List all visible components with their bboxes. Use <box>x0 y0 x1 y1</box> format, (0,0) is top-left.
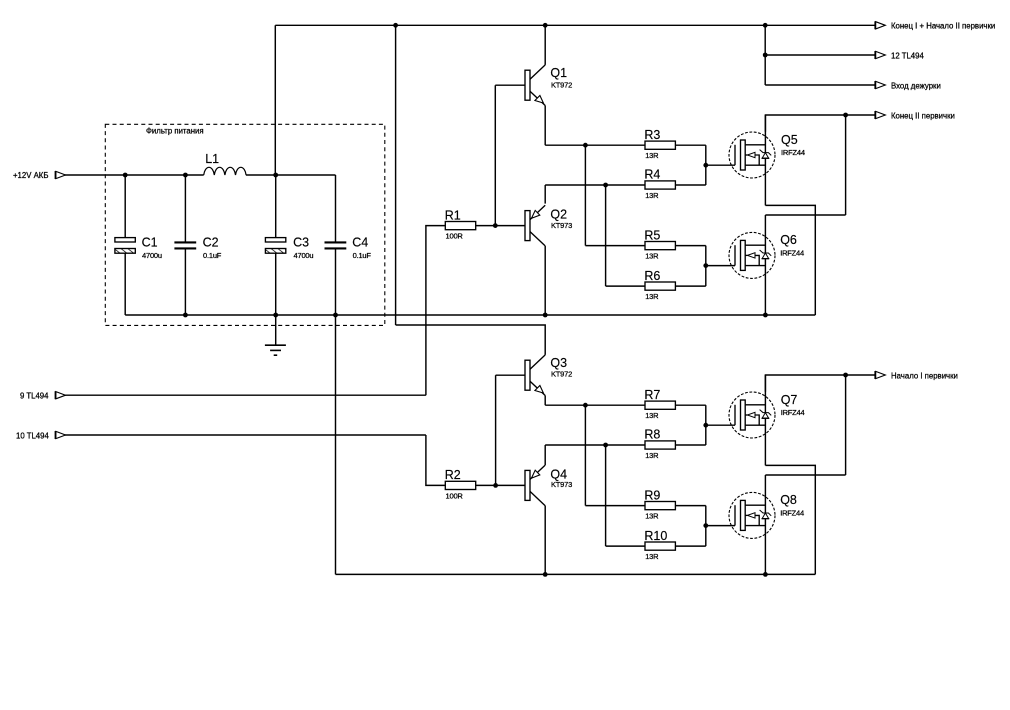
svg-text:Q2: Q2 <box>550 208 567 222</box>
svg-text:10 TL494: 10 TL494 <box>16 431 49 440</box>
svg-text:IRFZ44: IRFZ44 <box>780 249 804 258</box>
svg-text:IRFZ44: IRFZ44 <box>781 148 805 157</box>
svg-text:13R: 13R <box>645 252 659 261</box>
svg-text:Q1: Q1 <box>550 66 567 80</box>
svg-text:13R: 13R <box>645 151 659 160</box>
svg-text:KT973: KT973 <box>551 480 572 489</box>
svg-text:R7: R7 <box>644 388 660 402</box>
svg-text:KT972: KT972 <box>551 81 572 90</box>
svg-text:Конец I + Начало II первички: Конец I + Начало II первички <box>891 22 995 31</box>
svg-text:R2: R2 <box>445 468 461 482</box>
svg-text:Начало I первички: Начало I первички <box>891 371 958 380</box>
svg-text:Вход дежурки: Вход дежурки <box>891 81 941 90</box>
svg-text:0.1uF: 0.1uF <box>203 251 222 260</box>
svg-text:C1: C1 <box>142 236 158 250</box>
svg-text:4700u: 4700u <box>294 251 314 260</box>
svg-text:Фильтр питания: Фильтр питания <box>146 127 204 136</box>
svg-text:13R: 13R <box>645 411 659 420</box>
svg-text:12 TL494: 12 TL494 <box>891 51 924 60</box>
svg-text:IRFZ44: IRFZ44 <box>781 408 805 417</box>
svg-text:R9: R9 <box>644 488 660 502</box>
svg-text:L1: L1 <box>205 152 219 166</box>
svg-text:Q7: Q7 <box>781 393 798 407</box>
svg-text:+12V АКБ: +12V АКБ <box>13 171 48 180</box>
svg-text:R8: R8 <box>644 428 660 442</box>
svg-text:R1: R1 <box>445 208 461 222</box>
svg-text:C2: C2 <box>203 236 219 250</box>
svg-text:R3: R3 <box>644 128 660 142</box>
svg-text:C4: C4 <box>352 236 368 250</box>
svg-text:Q8: Q8 <box>780 493 797 507</box>
svg-text:IRFZ44: IRFZ44 <box>780 509 804 518</box>
svg-text:0.1uF: 0.1uF <box>353 251 372 260</box>
svg-text:100R: 100R <box>446 232 464 241</box>
svg-text:100R: 100R <box>446 491 464 500</box>
svg-text:KT972: KT972 <box>551 370 572 379</box>
svg-text:13R: 13R <box>645 191 659 200</box>
svg-text:R5: R5 <box>644 228 660 242</box>
svg-text:R4: R4 <box>644 168 660 182</box>
svg-text:9 TL494: 9 TL494 <box>20 392 49 401</box>
svg-text:13R: 13R <box>645 552 659 561</box>
svg-text:C3: C3 <box>293 236 309 250</box>
svg-text:4700u: 4700u <box>142 251 162 260</box>
svg-text:13R: 13R <box>645 292 659 301</box>
svg-text:Q3: Q3 <box>550 356 567 370</box>
svg-text:KT973: KT973 <box>551 221 572 230</box>
svg-text:Q6: Q6 <box>780 233 797 247</box>
svg-text:Q5: Q5 <box>781 133 798 147</box>
svg-text:13R: 13R <box>645 512 659 521</box>
svg-text:R6: R6 <box>644 269 660 283</box>
svg-text:R10: R10 <box>644 529 667 543</box>
svg-text:Конец II первички: Конец II первички <box>891 111 955 120</box>
svg-text:13R: 13R <box>645 451 659 460</box>
